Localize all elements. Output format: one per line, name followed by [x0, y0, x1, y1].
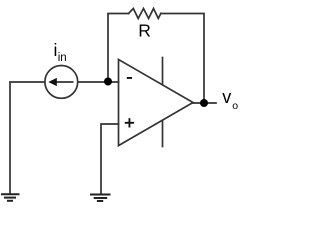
junction dot at inverting input node	[104, 78, 112, 86]
op-amp plus symbol	[125, 118, 134, 127]
junction dot at output node	[200, 99, 208, 107]
svg-text:in: in	[58, 52, 67, 64]
ground (middle)	[90, 195, 111, 202]
op-amp U1	[119, 60, 194, 146]
wire inverting input from current source to op-amp	[78, 81, 119, 83]
op-amp negative supply pin	[162, 121, 164, 147]
svg-text:o: o	[232, 100, 238, 112]
resistor R	[129, 9, 161, 19]
wire output from op-amp apex to v_o	[193, 102, 216, 104]
op-amp minus symbol	[127, 77, 132, 79]
wire feedback left vertical and top-left segment	[108, 14, 129, 82]
arrow of current source	[48, 78, 73, 86]
wire non-inverting input to ground	[101, 124, 119, 194]
op-amp positive supply pin	[162, 58, 164, 85]
current source i_in	[45, 66, 78, 99]
ground (left)	[1, 194, 20, 201]
wire top-right segment and right vertical to output	[161, 14, 204, 104]
svg-text:v: v	[222, 87, 231, 107]
wire current source left to ground	[10, 82, 45, 194]
svg-text:R: R	[138, 21, 151, 41]
